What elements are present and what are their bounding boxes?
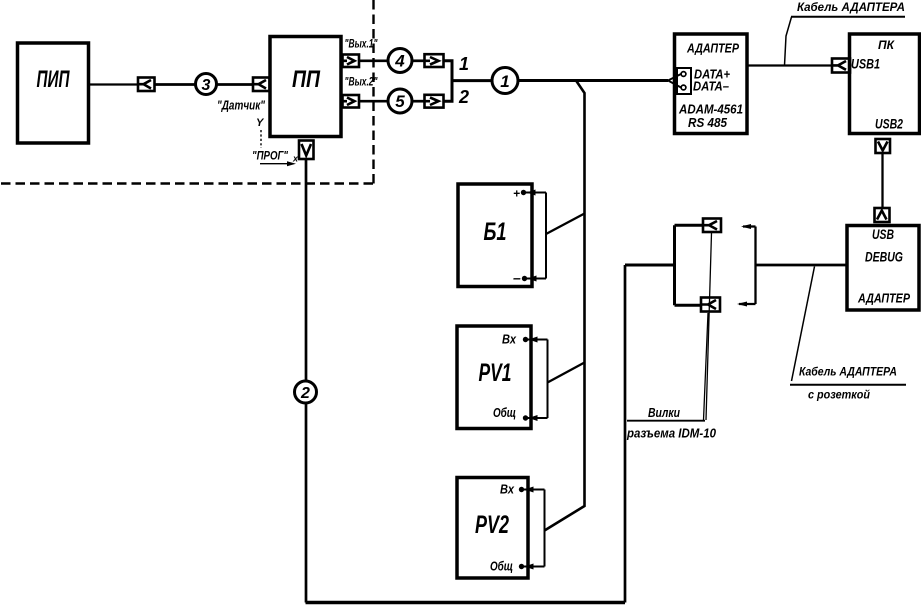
svg-text:PV2: PV2 — [475, 511, 509, 539]
svg-text:USB: USB — [872, 227, 894, 242]
svg-text:USB2: USB2 — [875, 116, 903, 132]
wire АДАПТЕР to USB1 — [747, 64, 832, 66]
wire ПИП to connector — [89, 83, 139, 85]
node 4 (circle) — [388, 49, 412, 73]
label Кабель АДАПТЕРА с розеткой — [790, 267, 906, 402]
svg-text:х: х — [292, 154, 299, 164]
svg-text:ПК: ПК — [878, 40, 895, 52]
block ПИП — [18, 43, 89, 143]
connector DATA terminals — [668, 68, 691, 94]
wire branch to measurement bus — [545, 81, 585, 531]
connector USB (up) — [875, 208, 890, 222]
connector at ПП "Датчик" input — [253, 78, 270, 92]
svg-text:Вх: Вх — [500, 483, 515, 497]
wire — [412, 59, 424, 62]
svg-text:"Вых.1": "Вых.1" — [345, 37, 378, 51]
svg-text:PV1: PV1 — [479, 359, 512, 387]
node 1 (circle) — [492, 68, 518, 94]
wire debug adapter to IDM socket — [756, 264, 848, 267]
wire PV1 terminals bracket — [528, 337, 548, 422]
node Б1 minus terminal — [522, 276, 527, 281]
wire node 2 down to bottom bus — [305, 403, 308, 603]
block PV1 — [457, 326, 531, 429]
svg-text:"ПРОГ": "ПРОГ" — [252, 149, 288, 163]
svg-text:Кабель АДАПТЕРА: Кабель АДАПТЕРА — [799, 365, 897, 379]
dashed enclosure boundary — [1, 0, 374, 184]
svg-text:1: 1 — [500, 72, 509, 91]
block ПК — [850, 34, 920, 134]
axis y mark — [256, 117, 265, 148]
node Б1 plus terminal — [521, 190, 526, 195]
connector (датчик cable plug) — [138, 78, 155, 92]
svg-text:с розеткой: с розеткой — [808, 388, 871, 402]
svg-text:"Вых.2": "Вых.2" — [345, 75, 378, 89]
svg-text:Б1: Б1 — [484, 218, 507, 246]
wire Вых.2 to node 5 — [359, 100, 388, 103]
svg-text:4: 4 — [394, 52, 405, 71]
node 3 (circle) — [196, 74, 217, 95]
block PV2 — [457, 478, 528, 579]
node PV1 Общ terminal — [523, 415, 528, 420]
svg-text:USB1: USB1 — [851, 56, 880, 72]
connector ПРОГ (down) at ПП bottom — [299, 141, 314, 160]
wire PV1 to bus — [548, 363, 585, 383]
wire USB2 to debug adapter — [881, 153, 883, 208]
svg-text:ПП: ПП — [292, 66, 321, 93]
svg-text:"Датчик": "Датчик" — [217, 99, 266, 113]
bottom bus wire — [306, 601, 626, 604]
connector line 1 plug — [425, 54, 444, 67]
connector line 2 plug — [425, 95, 444, 108]
svg-text:АДАПТЕР: АДАПТЕР — [857, 292, 910, 306]
label Вилки разъема IDM-10 — [626, 406, 716, 441]
wire — [412, 100, 424, 103]
wire IDM down to bottom bus — [624, 265, 627, 603]
main wire node 1 to АДАПТЕР — [518, 79, 668, 82]
connector IDM plug 2 — [701, 298, 720, 312]
svg-text:Общ: Общ — [490, 560, 513, 574]
svg-text:2: 2 — [300, 385, 310, 402]
label Кабель АДАПТЕРА (top) — [785, 0, 906, 66]
svg-text:2: 2 — [458, 87, 469, 107]
node 2 (circle) — [295, 381, 317, 403]
wire Вых.1 to node 4 — [359, 59, 388, 62]
block АДАПТЕР ADAM-4561 — [675, 34, 748, 134]
leader lines to Вилки label — [704, 233, 712, 420]
svg-text:разъема IDM-10: разъема IDM-10 — [626, 427, 716, 441]
wire IDM plugs assembly — [625, 225, 703, 305]
svg-text:АДАПТЕР: АДАПТЕР — [686, 42, 739, 56]
wire ПРОГ down — [305, 159, 308, 381]
label "ПРОГ" with arrow — [252, 149, 299, 167]
connector USB2 (down) — [876, 139, 891, 153]
svg-text:ПИП: ПИП — [37, 66, 70, 93]
svg-text:Вх: Вх — [502, 333, 517, 347]
svg-text:5: 5 — [395, 92, 405, 111]
connector USB1 — [832, 59, 850, 73]
svg-text:3: 3 — [202, 77, 211, 94]
svg-text:Вилки: Вилки — [648, 406, 680, 420]
wire PV2 terminals bracket — [524, 487, 545, 570]
node PV1 Вх terminal — [523, 337, 528, 342]
node PV2 Общ terminal — [519, 564, 524, 569]
wire Б1 to bus — [546, 214, 585, 235]
connector Вых.1 output — [343, 55, 360, 68]
wire bracket joining lines 1,2 — [444, 61, 493, 101]
svg-text:1: 1 — [459, 54, 469, 74]
bracket IDM socket side — [737, 224, 756, 307]
node 5 (circle) — [388, 89, 412, 113]
wire Б1 terminals bracket — [526, 190, 546, 282]
wire — [155, 83, 196, 86]
block Б1 — [458, 184, 532, 287]
svg-text:+: + — [513, 187, 520, 201]
block ПП — [270, 37, 341, 137]
connector IDM plug 1 — [703, 219, 721, 233]
wire — [217, 83, 254, 86]
svg-text:Кабель АДАПТЕРА: Кабель АДАПТЕРА — [797, 0, 905, 14]
node PV2 Вх terminal — [519, 487, 524, 492]
svg-text:RS 485: RS 485 — [688, 116, 728, 130]
svg-text:Общ: Общ — [493, 406, 516, 420]
connector Вых.2 output — [343, 95, 360, 108]
svg-text:DEBUG: DEBUG — [865, 250, 903, 265]
svg-text:ADAM-4561: ADAM-4561 — [678, 103, 743, 117]
svg-text:–: – — [513, 270, 521, 286]
svg-text:DATA–: DATA– — [693, 80, 729, 94]
block USB DEBUG АДАПТЕР — [847, 226, 919, 311]
